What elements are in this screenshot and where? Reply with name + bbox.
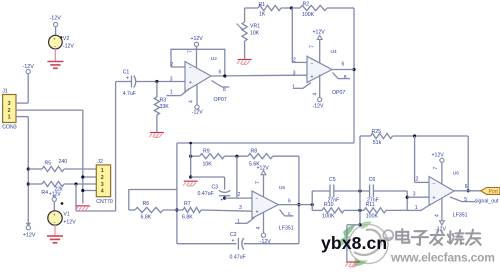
svg-text:-12V: -12V: [313, 104, 324, 110]
svg-text:+: +: [232, 238, 235, 244]
svg-text:+: +: [311, 75, 314, 81]
svg-text:3: 3: [170, 76, 173, 82]
svg-text:1: 1: [170, 90, 173, 96]
svg-text:−: −: [433, 182, 436, 188]
svg-text:1: 1: [415, 205, 418, 211]
svg-text:1: 1: [237, 219, 240, 225]
svg-text:Port: Port: [489, 189, 499, 195]
svg-text:+: +: [256, 210, 259, 216]
svg-text:-12V: -12V: [50, 16, 62, 22]
svg-text:R4: R4: [41, 190, 48, 196]
svg-text:2: 2: [8, 108, 11, 114]
svg-text:2: 2: [238, 192, 241, 198]
svg-text:R3: R3: [160, 98, 167, 104]
svg-text:10K: 10K: [250, 30, 260, 36]
svg-text:J2: J2: [97, 159, 103, 165]
svg-text:VR1: VR1: [250, 24, 260, 30]
svg-text:+12V: +12V: [191, 36, 204, 42]
svg-text:−: −: [311, 61, 314, 67]
svg-text:3: 3: [101, 182, 104, 188]
svg-text:1: 1: [8, 115, 11, 121]
svg-text:V1: V1: [63, 212, 69, 218]
svg-text:+: +: [53, 213, 56, 218]
svg-text:+12V: +12V: [313, 30, 326, 36]
svg-text:0.47uF: 0.47uF: [230, 255, 246, 261]
svg-text:4: 4: [189, 100, 195, 103]
svg-text:R25: R25: [372, 129, 382, 135]
svg-text:+: +: [53, 37, 56, 42]
svg-text:LF351: LF351: [279, 226, 294, 232]
svg-text:U5: U5: [279, 185, 285, 191]
svg-text:C5: C5: [329, 177, 336, 183]
svg-text:10K: 10K: [203, 162, 213, 168]
svg-text:3: 3: [8, 101, 11, 107]
svg-text:R2: R2: [303, 2, 310, 8]
svg-text:CON3: CON3: [2, 125, 17, 131]
svg-text:4: 4: [313, 93, 319, 96]
svg-text:4.7uF: 4.7uF: [123, 91, 136, 97]
svg-text:2: 2: [101, 175, 104, 181]
svg-text:3: 3: [239, 205, 242, 211]
svg-text:U4: U4: [331, 49, 337, 55]
svg-text:2: 2: [293, 57, 296, 63]
svg-text:7: 7: [433, 167, 439, 170]
svg-text:signal_out: signal_out: [475, 198, 499, 204]
svg-text:3: 3: [413, 192, 416, 198]
svg-text:2: 2: [416, 177, 419, 183]
svg-text:R7: R7: [184, 201, 191, 207]
svg-text:3: 3: [293, 70, 296, 76]
svg-text:U2: U2: [211, 56, 217, 62]
svg-text:−: −: [256, 196, 259, 202]
svg-text:−: −: [53, 220, 56, 225]
svg-text:U6: U6: [453, 171, 459, 177]
svg-text:1K: 1K: [259, 12, 266, 18]
svg-text:LF351: LF351: [453, 213, 468, 219]
svg-text:www.elecfans.com: www.elecfans.com: [390, 251, 495, 265]
svg-text:100K: 100K: [302, 12, 315, 18]
svg-text:1: 1: [292, 84, 295, 90]
svg-text:R1: R1: [259, 2, 266, 8]
svg-text:4: 4: [435, 214, 441, 217]
svg-text:R6: R6: [143, 201, 150, 207]
svg-text:0.47uF: 0.47uF: [198, 191, 214, 197]
svg-text:1: 1: [101, 168, 104, 174]
svg-text:-12V: -12V: [63, 44, 74, 50]
svg-text:2: 2: [170, 62, 173, 68]
svg-text:+: +: [126, 76, 129, 82]
svg-text:OP07: OP07: [214, 97, 227, 103]
svg-text:100K: 100K: [322, 214, 335, 220]
svg-text:R11: R11: [366, 202, 375, 208]
svg-text:+: +: [189, 80, 192, 86]
svg-text:R5: R5: [45, 161, 52, 167]
svg-text:-12V: -12V: [260, 239, 271, 245]
svg-text:J1: J1: [2, 89, 8, 95]
svg-text:4: 4: [256, 227, 262, 230]
svg-text:+12V: +12V: [63, 220, 76, 226]
svg-text:C6: C6: [369, 177, 376, 183]
svg-text:−: −: [54, 44, 57, 49]
svg-text:R8: R8: [251, 149, 258, 155]
svg-text:−: −: [189, 66, 192, 72]
svg-text:+: +: [220, 197, 223, 203]
svg-text:6: 6: [465, 184, 468, 190]
svg-text:7: 7: [255, 181, 261, 184]
svg-text:6: 6: [342, 62, 345, 68]
svg-text:100K: 100K: [366, 214, 379, 220]
svg-text:ybx8.cn: ybx8.cn: [321, 233, 387, 253]
svg-text:7: 7: [310, 45, 316, 48]
svg-text:4: 4: [101, 189, 104, 195]
svg-text:7: 7: [188, 50, 194, 53]
svg-text:51k: 51k: [373, 140, 382, 146]
svg-text:C3: C3: [212, 185, 219, 191]
svg-text:OP07: OP07: [332, 90, 345, 96]
svg-text:240: 240: [59, 159, 68, 165]
svg-text:6.8K: 6.8K: [141, 215, 152, 221]
svg-text:-12V: -12V: [192, 110, 203, 116]
svg-text:CNT70: CNT70: [96, 199, 113, 205]
svg-text:6: 6: [288, 199, 291, 205]
svg-text:R9: R9: [203, 149, 210, 155]
svg-text:33K: 33K: [160, 104, 170, 110]
svg-text:R10: R10: [324, 202, 334, 208]
svg-text:6.8K: 6.8K: [182, 215, 193, 221]
svg-text:+12V: +12V: [432, 153, 445, 159]
svg-text:8: 8: [223, 87, 226, 93]
svg-text:+12V: +12V: [23, 233, 36, 239]
svg-text:V2: V2: [63, 36, 69, 42]
svg-text:+: +: [433, 196, 436, 202]
svg-text:6: 6: [219, 70, 222, 76]
